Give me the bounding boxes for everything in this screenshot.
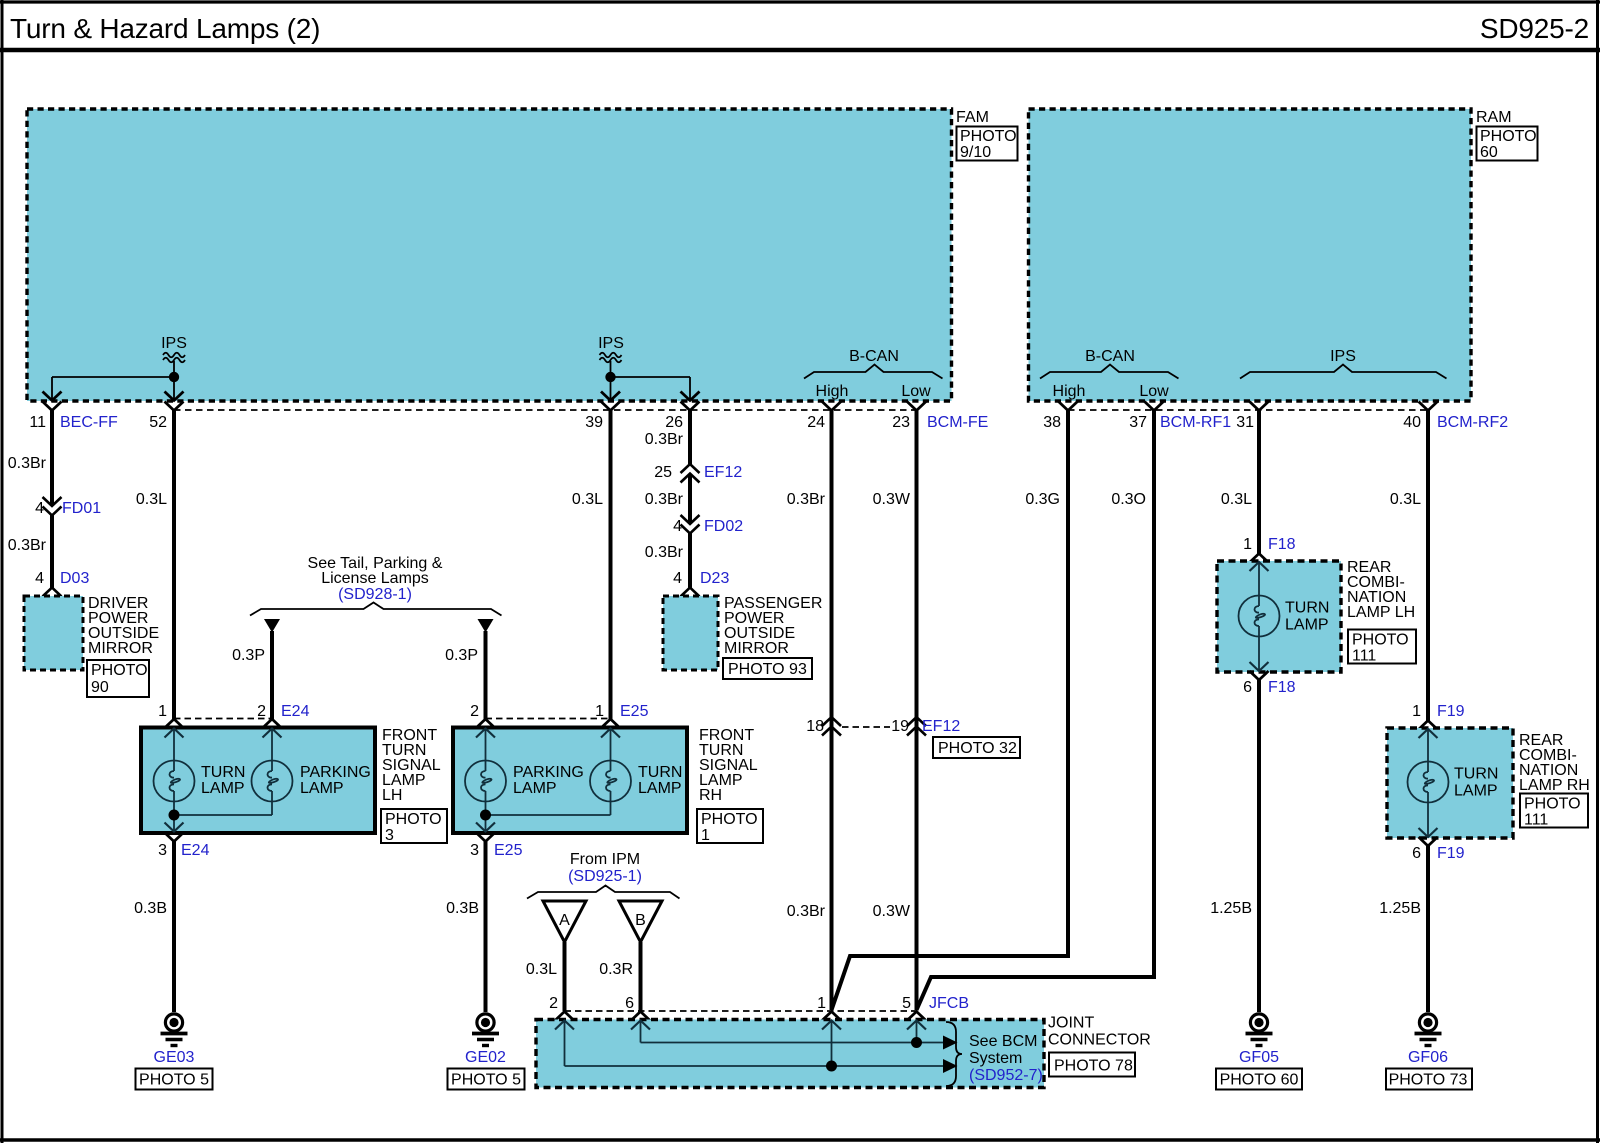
svg-text:26: 26: [665, 414, 683, 431]
connector JFCB row: [549, 995, 969, 1012]
wire 0.3Br EF12 to FD02: [645, 474, 690, 525]
E24 pin 1 chevron: [165, 719, 184, 728]
svg-text:3: 3: [158, 842, 167, 859]
svg-text:PHOTO: PHOTO: [960, 128, 1017, 145]
svg-text:F18: F18: [1268, 679, 1296, 696]
svg-text:EF12: EF12: [704, 464, 742, 481]
svg-text:52: 52: [149, 414, 167, 431]
svg-text:BCM-RF1: BCM-RF1: [1160, 414, 1231, 431]
IPS source symbol (right, FAM): [598, 335, 624, 382]
svg-text:High: High: [816, 383, 849, 400]
branch arrow to E24 pin 2: [232, 619, 280, 719]
svg-text:LAMP LH: LAMP LH: [1347, 604, 1415, 621]
svg-text:PHOTO: PHOTO: [1480, 128, 1537, 145]
svg-text:PHOTO 5: PHOTO 5: [139, 1072, 209, 1089]
svg-text:IPS: IPS: [598, 335, 624, 352]
svg-text:FD01: FD01: [62, 500, 101, 517]
svg-text:F19: F19: [1437, 703, 1465, 720]
svg-text:E24: E24: [181, 842, 210, 859]
B-CAN label and brace (RAM): [1040, 348, 1179, 400]
wire 0.3W BCM-FE 23 to JFCB 5: [873, 411, 917, 1011]
wire 0.3G BCM-RF1 38 to JFCB 1: [832, 411, 1069, 1011]
svg-text:90: 90: [91, 679, 109, 696]
E25 pin 1 chevron: [601, 719, 620, 728]
ground GF06: [1386, 1014, 1472, 1090]
svg-text:IPS: IPS: [1330, 348, 1356, 365]
RH lamp description: [697, 727, 763, 844]
LH lamp description: [381, 727, 447, 844]
JFCB internal wire pin 6: [631, 1021, 944, 1043]
svg-text:Turn & Hazard Lamps (2): Turn & Hazard Lamps (2): [10, 13, 320, 44]
svg-text:TURN: TURN: [201, 764, 245, 781]
svg-text:PHOTO 32: PHOTO 32: [938, 740, 1017, 757]
svg-text:0.3P: 0.3P: [232, 647, 265, 664]
wire 0.3B E24 3 to GE03: [134, 842, 174, 1013]
svg-text:39: 39: [585, 414, 603, 431]
svg-text:PHOTO: PHOTO: [701, 811, 758, 828]
wire 1.25B F18 6 to GF05: [1210, 680, 1259, 1012]
svg-text:PHOTO 78: PHOTO 78: [1054, 1058, 1133, 1075]
svg-text:LAMP RH: LAMP RH: [1519, 777, 1590, 794]
connector row under FAM (dashed): [174, 409, 920, 411]
svg-text:BCM-FE: BCM-FE: [927, 414, 988, 431]
svg-text:1.25B: 1.25B: [1379, 900, 1421, 917]
svg-text:B-CAN: B-CAN: [1085, 348, 1135, 365]
svg-text:0.3Br: 0.3Br: [787, 903, 826, 920]
svg-text:0.3Br: 0.3Br: [8, 537, 47, 554]
connector E24 top row: [158, 703, 309, 720]
ground GE02: [448, 1014, 525, 1090]
svg-text:BEC-FF: BEC-FF: [60, 414, 118, 431]
svg-text:See BCM: See BCM: [969, 1033, 1037, 1050]
svg-text:SD925-2: SD925-2: [1480, 13, 1589, 44]
svg-text:1: 1: [701, 827, 710, 844]
RH lamp internal junction: [476, 802, 611, 832]
wire 0.3Br FD01 to D03: [8, 516, 52, 588]
svg-text:TURN: TURN: [1285, 600, 1329, 617]
svg-text:F19: F19: [1437, 845, 1465, 862]
svg-text:System: System: [969, 1050, 1022, 1067]
svg-text:4: 4: [673, 518, 682, 535]
svg-text:E24: E24: [281, 703, 310, 720]
svg-text:1: 1: [1243, 536, 1252, 553]
FAM pin 39: [585, 402, 620, 432]
svg-text:LAMP: LAMP: [513, 780, 557, 797]
From IPM note: [527, 851, 680, 899]
wire 0.3Br FD02 to D23: [645, 534, 690, 588]
svg-text:Low: Low: [901, 383, 931, 400]
FAM pin 26: [665, 402, 699, 432]
in-line connector EF12 pin 18: [806, 717, 841, 736]
connector F18 pin 1: [1243, 536, 1296, 563]
svg-text:19: 19: [891, 718, 909, 735]
FAM pin 24: [807, 402, 841, 432]
JFCB internal wire pin 5: [907, 1021, 926, 1049]
svg-text:1.25B: 1.25B: [1210, 900, 1252, 917]
rear LH turn lamp bulb: [1239, 562, 1330, 671]
svg-text:PHOTO: PHOTO: [1352, 632, 1409, 649]
IPS source symbol (left, FAM): [161, 335, 187, 382]
JFCB pin 5 chevron: [907, 1012, 926, 1021]
RAM pin 37, connector BCM-RF1: [1129, 402, 1231, 432]
svg-text:(SD928-1): (SD928-1): [338, 586, 412, 603]
connector E25 bottom pin 3: [470, 833, 522, 860]
svg-text:11: 11: [29, 414, 46, 431]
E24 pin 2 chevron: [263, 719, 282, 728]
svg-text:0.3L: 0.3L: [572, 491, 603, 508]
RAM pin 40, connector BCM-RF2: [1403, 402, 1508, 432]
svg-text:B-CAN: B-CAN: [849, 348, 899, 365]
svg-text:3: 3: [385, 827, 394, 844]
svg-text:6: 6: [1412, 845, 1421, 862]
arrow to BCM system (lower): [943, 1059, 958, 1073]
svg-text:JFCB: JFCB: [929, 995, 969, 1012]
rear combination lamp RH box: [1387, 728, 1513, 838]
svg-text:9/10: 9/10: [960, 144, 991, 161]
svg-text:24: 24: [807, 414, 825, 431]
svg-text:37: 37: [1129, 414, 1147, 431]
svg-text:23: 23: [892, 414, 910, 431]
See Tail, Parking & License Lamps note: [250, 555, 502, 616]
wire 0.3Br BEC-FF 11 to FD01: [8, 411, 52, 507]
wire 0.3L FAM 52 to E24 pin 1: [136, 411, 174, 720]
rear LH lamp description: [1347, 559, 1416, 665]
in-line connector EF12 pin 19: [842, 717, 1020, 758]
LH turn lamp bulb: [154, 729, 246, 802]
svg-text:PHOTO 93: PHOTO 93: [728, 661, 807, 678]
svg-text:0.3Br: 0.3Br: [787, 491, 826, 508]
svg-text:TURN: TURN: [1454, 766, 1498, 783]
svg-text:EF12: EF12: [922, 718, 960, 735]
svg-text:(SD925-1): (SD925-1): [568, 868, 642, 885]
wire 0.3R B to JFCB 6: [599, 942, 640, 1011]
See BCM System note: [946, 1022, 1043, 1086]
wire 1.25B F19 6 to GF06: [1379, 846, 1428, 1012]
wire 0.3L FAM 39 to E25 pin 1: [572, 411, 611, 720]
JFCB internal wire pin 2: [555, 1021, 944, 1067]
svg-text:High: High: [1053, 383, 1086, 400]
svg-text:4: 4: [35, 500, 44, 517]
svg-text:0.3Br: 0.3Br: [645, 544, 684, 561]
wire IPS to FAM pin 11: [43, 377, 175, 401]
svg-text:FAM: FAM: [956, 109, 989, 126]
svg-text:0.3Br: 0.3Br: [645, 491, 684, 508]
B-CAN label and brace (FAM): [804, 348, 943, 400]
svg-text:31: 31: [1236, 414, 1254, 431]
JFCB pin 2 chevron: [555, 1012, 574, 1021]
rear RH turn lamp bulb: [1408, 729, 1499, 837]
svg-text:MIRROR: MIRROR: [724, 640, 789, 657]
svg-text:60: 60: [1480, 144, 1498, 161]
svg-text:PARKING: PARKING: [513, 764, 584, 781]
svg-text:0.3W: 0.3W: [873, 903, 911, 920]
in-line connector FD02 pin 4: [673, 515, 743, 535]
svg-text:1: 1: [817, 995, 826, 1012]
FAM module box: [27, 109, 1018, 401]
front turn signal lamp LH box: [141, 728, 375, 834]
svg-text:LAMP: LAMP: [638, 780, 682, 797]
svg-text:2: 2: [549, 995, 558, 1012]
rear combination lamp LH box: [1217, 561, 1341, 672]
FAM pin 52: [149, 402, 183, 432]
svg-text:LAMP: LAMP: [1285, 617, 1329, 634]
svg-text:0.3W: 0.3W: [873, 491, 911, 508]
wire 0.3Br BCM-FE 24 to JFCB 1: [787, 411, 832, 1011]
svg-text:Low: Low: [1139, 383, 1169, 400]
svg-text:PHOTO 73: PHOTO 73: [1389, 1072, 1468, 1089]
svg-text:0.3B: 0.3B: [446, 900, 479, 917]
svg-text:LH: LH: [382, 787, 402, 804]
svg-text:38: 38: [1043, 414, 1061, 431]
svg-text:GE02: GE02: [465, 1049, 506, 1066]
wire 0.3O BCM-RF1 37 to JFCB 5: [917, 411, 1155, 1011]
passenger power outside mirror box: [663, 595, 822, 679]
svg-text:E25: E25: [494, 842, 523, 859]
svg-text:CONNECTOR: CONNECTOR: [1048, 1032, 1151, 1049]
svg-text:0.3R: 0.3R: [599, 961, 633, 978]
arrow to BCM system (upper): [943, 1036, 958, 1050]
connector D23 pin 4: [673, 570, 729, 597]
svg-text:2: 2: [470, 703, 479, 720]
RAM pin 31: [1236, 402, 1268, 432]
svg-text:0.3B: 0.3B: [134, 900, 167, 917]
svg-text:LAMP: LAMP: [300, 780, 344, 797]
connector row under RAM (dashed): [1068, 409, 1428, 411]
svg-text:GE03: GE03: [154, 1049, 195, 1066]
svg-text:LAMP: LAMP: [201, 780, 245, 797]
svg-text:GF06: GF06: [1408, 1049, 1448, 1066]
svg-text:RH: RH: [699, 787, 722, 804]
triangle connector B: [619, 901, 662, 942]
connector F18 pin 6: [1243, 671, 1296, 696]
connector E25 top row: [470, 703, 648, 720]
driver power outside mirror box: [24, 595, 159, 697]
svg-text:GF05: GF05: [1239, 1049, 1279, 1066]
LH lamp internal junction: [165, 802, 273, 832]
svg-text:0.3G: 0.3G: [1025, 491, 1060, 508]
FAM pin 11 connector BEC-FF: [29, 402, 118, 432]
svg-text:JOINT: JOINT: [1048, 1015, 1094, 1032]
connector F19 pin 6: [1412, 837, 1465, 862]
svg-text:1: 1: [158, 703, 167, 720]
svg-text:PHOTO 5: PHOTO 5: [451, 1072, 521, 1089]
svg-text:D03: D03: [60, 570, 89, 587]
RAM module box: [1029, 109, 1538, 401]
svg-text:3: 3: [470, 842, 479, 859]
svg-text:BCM-RF2: BCM-RF2: [1437, 414, 1508, 431]
wire IPS to FAM pin 26: [611, 377, 700, 401]
svg-text:1: 1: [1412, 703, 1421, 720]
svg-text:PHOTO: PHOTO: [91, 662, 148, 679]
svg-text:(SD952-7): (SD952-7): [969, 1067, 1043, 1084]
JFCB pin 1 chevron: [822, 1012, 841, 1021]
svg-text:0.3L: 0.3L: [136, 491, 167, 508]
svg-text:MIRROR: MIRROR: [88, 640, 153, 657]
svg-text:40: 40: [1403, 414, 1421, 431]
front turn signal lamp RH box: [453, 728, 687, 834]
svg-text:5: 5: [902, 995, 911, 1012]
wire 0.3L BCM-RF2 31 to F18 1: [1221, 411, 1259, 554]
wire 0.3Br FAM 26 to EF12: [645, 411, 690, 465]
svg-text:PHOTO: PHOTO: [1524, 796, 1581, 813]
wire 0.3L A to JFCB 2: [526, 942, 565, 1011]
svg-text:0.3Br: 0.3Br: [8, 455, 47, 472]
svg-text:F18: F18: [1268, 536, 1296, 553]
svg-text:A: A: [559, 912, 570, 929]
IPS label and brace (RAM): [1240, 348, 1447, 379]
svg-text:PHOTO 60: PHOTO 60: [1220, 1072, 1299, 1089]
svg-text:IPS: IPS: [161, 335, 187, 352]
JFCB internal wire pin 1: [822, 1021, 841, 1072]
triangle connector A: [543, 901, 586, 942]
svg-text:0.3Br: 0.3Br: [645, 431, 684, 448]
connector D03 pin 4: [35, 570, 89, 597]
svg-text:25: 25: [654, 464, 672, 481]
svg-text:TURN: TURN: [638, 764, 682, 781]
svg-text:6: 6: [625, 995, 634, 1012]
RH parking lamp bulb: [465, 729, 584, 802]
JFCB pin 6 chevron: [631, 1012, 650, 1021]
svg-text:0.3L: 0.3L: [526, 961, 557, 978]
wire IPS to FAM pin 52: [165, 377, 184, 401]
RAM pin 38: [1043, 402, 1077, 432]
svg-text:18: 18: [806, 718, 824, 735]
svg-text:0.3L: 0.3L: [1221, 491, 1252, 508]
RH turn lamp bulb: [590, 729, 682, 802]
E25 pin 2 chevron: [476, 719, 495, 728]
wire IPS to FAM pin 39: [601, 377, 620, 401]
svg-text:FD02: FD02: [704, 518, 743, 535]
svg-text:License Lamps: License Lamps: [321, 570, 429, 587]
svg-text:RAM: RAM: [1476, 109, 1512, 126]
ground GE03: [136, 1014, 213, 1090]
svg-text:PHOTO: PHOTO: [385, 811, 442, 828]
svg-text:LAMP: LAMP: [1454, 783, 1498, 800]
branch arrow to E25 pin 2: [445, 619, 493, 719]
svg-text:0.3L: 0.3L: [1390, 491, 1421, 508]
FAM pin 23, connector BCM-FE: [892, 402, 988, 432]
svg-text:4: 4: [673, 570, 682, 587]
connector E24 bottom pin 3: [158, 833, 209, 860]
svg-text:2: 2: [257, 703, 266, 720]
svg-text:0.3P: 0.3P: [445, 647, 478, 664]
svg-text:D23: D23: [700, 570, 729, 587]
svg-text:111: 111: [1352, 648, 1376, 665]
wire 0.3L BCM-RF2 40 to F19 1: [1390, 411, 1428, 721]
ground GF05: [1216, 1014, 1302, 1090]
rear RH lamp description: [1519, 732, 1590, 829]
LH parking lamp bulb: [252, 729, 371, 802]
wire 0.3B E25 3 to GE02: [446, 842, 485, 1013]
svg-text:B: B: [635, 912, 646, 929]
svg-text:E25: E25: [620, 703, 649, 720]
svg-text:PARKING: PARKING: [300, 764, 371, 781]
svg-text:111: 111: [1524, 812, 1548, 829]
in-line connector EF12 pin 25: [654, 464, 742, 483]
svg-text:1: 1: [595, 703, 604, 720]
svg-text:4: 4: [35, 570, 44, 587]
connector F19 pin 1: [1412, 703, 1465, 730]
svg-text:From IPM: From IPM: [570, 851, 640, 868]
svg-text:6: 6: [1243, 679, 1252, 696]
joint connector box: [536, 1015, 1151, 1088]
in-line connector FD01 pin 4: [35, 497, 101, 517]
svg-text:0.3O: 0.3O: [1111, 491, 1146, 508]
